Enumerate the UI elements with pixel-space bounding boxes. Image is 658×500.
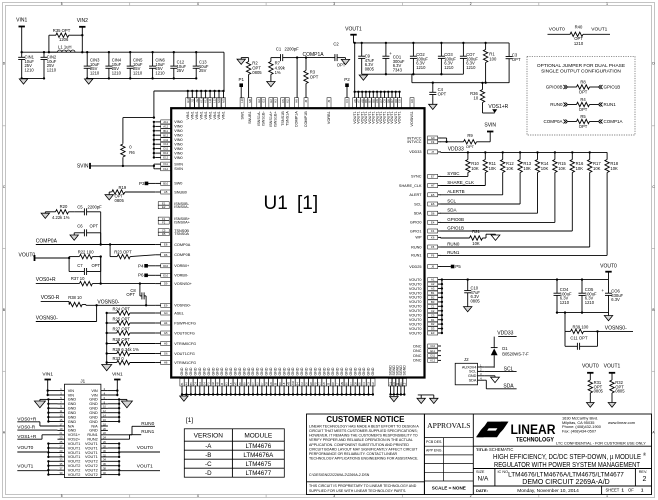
svg-text:C6: C6 [77, 224, 83, 229]
svg-text:K12: K12 [430, 359, 435, 363]
resistor R39 [565, 313, 599, 334]
pin VTRIM1CFG H6 [155, 361, 196, 365]
svg-text:GND: GND [291, 367, 295, 375]
svg-text:GND: GND [202, 367, 206, 375]
ground [70, 235, 78, 240]
svg-text:SVIN: SVIN [484, 123, 496, 129]
svg-text:GND: GND [322, 367, 326, 375]
capacitor C11 [565, 331, 598, 349]
svg-text:10K: 10K [472, 241, 480, 246]
svg-text:B5: B5 [189, 382, 193, 386]
resistor R14 [535, 152, 549, 172]
ground [267, 82, 275, 87]
svg-text:P6: P6 [138, 273, 144, 278]
svg-text:AUX0V4: AUX0V4 [462, 365, 477, 369]
node VIN1 j1 left [42, 371, 57, 396]
svg-text:K9: K9 [278, 382, 282, 386]
resistor R36 [470, 82, 485, 113]
svg-text:GND: GND [234, 367, 238, 375]
svg-text:OPT: OPT [310, 74, 319, 79]
svg-text:VOUT1: VOUT1 [85, 451, 98, 455]
pin RUN1 F6 [411, 253, 441, 257]
svg-text:GPIO0: GPIO0 [410, 221, 422, 225]
svg-text:5: 5 [61, 494, 63, 498]
svg-text:10K: 10K [576, 166, 584, 171]
svg-text:LTM4676A: LTM4676A [243, 452, 274, 459]
svg-text:G6: G6 [211, 381, 215, 385]
svg-text:B8: B8 [371, 99, 375, 103]
pin SHARE_CLK H7 [399, 184, 441, 188]
svg-text:SINGLE OUTPUT CONFIGURATION: SINGLE OUTPUT CONFIGURATION [541, 69, 621, 75]
pin ISNS1B- G3 [261, 98, 265, 126]
svg-text:GND: GND [265, 367, 269, 375]
svg-text:VOUT0: VOUT0 [409, 309, 422, 313]
svg-text:E6: E6 [431, 202, 435, 206]
diode D1 [491, 346, 529, 367]
pin ISNS0A+ F2 [158, 220, 191, 224]
svg-text:GND: GND [313, 367, 317, 375]
svg-text:GND: GND [371, 367, 375, 375]
svg-text:SDA: SDA [503, 384, 514, 390]
capacitor CO1 [382, 43, 405, 74]
svg-text:F2: F2 [162, 220, 166, 224]
svg-text:RUN0: RUN0 [447, 241, 460, 246]
svg-text:SDA: SDA [414, 212, 422, 216]
capacitor C12 [170, 52, 186, 79]
wire sgnd link [418, 395, 434, 398]
svg-text:A3: A3 [431, 287, 435, 291]
logo block [473, 416, 651, 447]
svg-text:SCHEMATIC: SCHEMATIC [489, 447, 513, 452]
svg-text:VDD33: VDD33 [409, 150, 421, 154]
svg-text:J12: J12 [195, 98, 199, 103]
pin TSNS1A K2 [285, 98, 289, 126]
svg-text:SUPPLIED FOR USE WITH LINEAR T: SUPPLIED FOR USE WITH LINEAR TECHNOLOGY … [309, 489, 406, 493]
wire SYBC [441, 171, 468, 177]
svg-text:VOS1+R: VOS1+R [488, 104, 508, 110]
svg-text:ISNS1A+: ISNS1A+ [269, 110, 273, 127]
svg-text:L1 1uH: L1 1uH [58, 45, 72, 50]
svg-text:GND: GND [300, 367, 304, 375]
svg-text:4: 4 [197, 2, 199, 6]
svg-text:GND: GND [367, 367, 371, 375]
svg-text:F4: F4 [431, 229, 435, 233]
wire j1 gnd left [40, 398, 58, 423]
resistor R18 [605, 152, 619, 172]
ground [430, 398, 438, 403]
svg-text:SCL: SCL [414, 202, 421, 206]
svg-text:R24 OPT: R24 OPT [113, 306, 131, 311]
svg-text:COMP0B: COMP0B [174, 253, 191, 257]
testpoint P2 [344, 77, 350, 98]
ground [19, 79, 27, 84]
svg-text:E5: E5 [431, 193, 435, 197]
svg-text:D7: D7 [251, 382, 255, 386]
wire GPIO1B [441, 173, 573, 232]
svg-text:VOUT0: VOUT0 [409, 296, 422, 300]
svg-text:K5: K5 [281, 99, 285, 103]
svg-text:VOS0-R: VOS0-R [41, 295, 60, 301]
svg-text:7343: 7343 [393, 67, 403, 72]
capacitor C4 [429, 83, 446, 105]
svg-text:GND: GND [68, 398, 77, 402]
svg-text:GND: GND [345, 367, 349, 375]
ground [359, 75, 367, 80]
svg-text:RUN1: RUN1 [87, 433, 97, 437]
capacitor C10 [464, 280, 480, 307]
svg-text:E9: E9 [164, 303, 168, 307]
svg-text:P2: P2 [344, 77, 350, 82]
svg-text:K3: K3 [225, 382, 229, 386]
svg-text:TSNS1A: TSNS1A [285, 111, 289, 126]
ground [105, 195, 113, 200]
svg-text:A7: A7 [357, 99, 361, 103]
svg-text:1210: 1210 [560, 300, 570, 305]
wire RUN1 [441, 173, 608, 256]
svg-text:VDD33: VDD33 [497, 330, 513, 336]
svg-text:N/A: N/A [478, 476, 490, 483]
svg-text:J2: J2 [464, 357, 469, 362]
svg-text:C2: C2 [300, 382, 304, 386]
svg-text:APP ENG.: APP ENG. [426, 448, 442, 452]
wire config gnd bus [106, 313, 108, 365]
svg-text:GND: GND [89, 411, 98, 415]
pin VOUT1CFG G6 [155, 352, 195, 356]
resistor R4 [550, 97, 616, 112]
svg-text:GND: GND [468, 374, 477, 378]
svg-text:D5: D5 [162, 232, 166, 236]
svg-text:VIN1: VIN1 [195, 111, 199, 119]
svg-text:VOUT0CFG: VOUT0CFG [174, 331, 195, 335]
wire RUN0 [441, 173, 590, 248]
svg-text:SVIN: SVIN [174, 167, 183, 171]
svg-text:RUN2: RUN2 [87, 438, 97, 442]
svg-text:0805: 0805 [252, 70, 262, 75]
svg-text:GPIO1B: GPIO1B [447, 225, 464, 230]
svg-text:E8: E8 [164, 243, 168, 247]
svg-text:VOUT1: VOUT1 [345, 27, 362, 33]
svg-text:APPROVALS: APPROVALS [427, 421, 470, 430]
pin ALERT E5 [409, 193, 441, 197]
svg-text:H8: H8 [216, 382, 220, 386]
wire vout1 gnd rail [362, 73, 464, 75]
node SVIN [77, 163, 155, 170]
svg-text:C7: C7 [349, 382, 353, 386]
svg-text:B3: B3 [431, 300, 435, 304]
capacitor C2 [332, 42, 346, 68]
pin ISNS1A+ H2 [269, 98, 273, 127]
svg-text:RUN1: RUN1 [447, 250, 460, 255]
node VOUT0 tp [582, 363, 599, 380]
ground [608, 403, 616, 408]
svg-text:1210: 1210 [444, 65, 454, 70]
svg-text:VOUT0: VOUT0 [409, 305, 422, 309]
svg-text:L12: L12 [213, 98, 217, 103]
svg-text:P5: P5 [455, 264, 461, 269]
svg-text:DNC: DNC [413, 359, 421, 363]
svg-text:PERFORMANCE OR RELIABILITY. C: PERFORMANCE OR RELIABILITY. CONTACT LINE… [309, 452, 398, 456]
svg-text:GPIO1B: GPIO1B [604, 85, 621, 90]
svg-text:G3: G3 [367, 381, 371, 385]
svg-text:G8: G8 [265, 381, 269, 385]
svg-text:VOUT2: VOUT2 [85, 473, 98, 477]
svg-text:R37 10: R37 10 [71, 276, 85, 281]
svg-text:2200pF: 2200pF [88, 204, 103, 209]
pin GPIO1 F4 [410, 229, 441, 233]
resistor R33 [106, 356, 156, 365]
svg-text:COMP1A: COMP1A [295, 111, 299, 128]
svg-text:R5: R5 [580, 114, 586, 119]
svg-text:VIN0: VIN0 [174, 134, 182, 138]
customer notice [307, 414, 425, 495]
svg-text:VORB1: VORB1 [327, 111, 331, 124]
resistor R1 [483, 43, 497, 83]
svg-text:VIN: VIN [91, 389, 98, 393]
svg-text:25V: 25V [199, 68, 207, 73]
svg-text:SW1: SW1 [240, 111, 244, 119]
connector J2 [455, 357, 484, 385]
svg-text:U1: U1 [264, 193, 288, 214]
svg-text:B9: B9 [242, 382, 246, 386]
svg-text:GND: GND [220, 367, 224, 375]
svg-text:100: 100 [489, 56, 497, 61]
svg-text:A10: A10 [291, 380, 295, 385]
svg-text:R38 10: R38 10 [68, 295, 82, 300]
pin INTVCC F9 [407, 140, 441, 144]
svg-text:VIN: VIN [68, 389, 75, 393]
svg-text:SHARE_CLK: SHARE_CLK [399, 184, 422, 188]
svg-text:F9: F9 [431, 140, 435, 144]
svg-text:K4: K4 [345, 99, 349, 103]
svg-text:GND: GND [287, 367, 291, 375]
svg-text:4: 4 [197, 494, 199, 498]
svg-text:GND: GND [225, 367, 229, 375]
svg-text:GND: GND [89, 398, 98, 402]
wire VIN1 bus [154, 90, 225, 98]
svg-text:A4: A4 [185, 382, 189, 386]
svg-text:GND: GND [89, 429, 98, 433]
svg-text:R28 OPT: R28 OPT [113, 337, 131, 342]
svg-text:VIN0: VIN0 [174, 147, 182, 151]
wire input rail [22, 51, 224, 53]
svg-text:GPIO0B: GPIO0B [447, 217, 464, 222]
svg-text:A9: A9 [238, 382, 242, 386]
svg-text:ALERT: ALERT [409, 193, 422, 197]
svg-text:VOUT1CFG: VOUT1CFG [174, 352, 195, 356]
capacitor CIN4 [105, 52, 121, 79]
wire SHARE_CLK [441, 173, 486, 186]
svg-text:-C: -C [205, 461, 212, 468]
svg-text:SDA: SDA [447, 208, 456, 213]
resistor R3 [304, 58, 319, 98]
svg-text:GPIO0B: GPIO0B [546, 85, 563, 90]
svg-text:ISNS1B-: ISNS1B- [262, 110, 266, 126]
capacitor C8 [126, 284, 147, 307]
pin VDD25 J6 [409, 265, 441, 269]
svg-text:K11: K11 [199, 98, 203, 103]
svg-text:J5: J5 [327, 99, 331, 102]
node SVIN right [484, 123, 496, 132]
wire VOUT0 bus [441, 278, 443, 334]
svg-text:E8: E8 [309, 382, 313, 386]
svg-text:10K: 10K [506, 166, 514, 171]
wire VIN0 bus [153, 116, 155, 158]
svg-text:0805: 0805 [365, 66, 375, 71]
svg-text:0805: 0805 [615, 389, 625, 394]
pin SW1 L10 [240, 98, 244, 120]
svg-text:VIN: VIN [68, 393, 75, 397]
svg-text:M5: M5 [248, 98, 252, 102]
pin VTRIM0CFG H5 [155, 342, 196, 346]
svg-text:10: 10 [474, 96, 479, 101]
capacitor CIN1 [18, 52, 34, 78]
pin ISNS0A- E2 [158, 205, 190, 209]
svg-text:1210: 1210 [25, 67, 35, 72]
svg-text:CIRCUIT BOARD LAYOUT MAY SIGNI: CIRCUIT BOARD LAYOUT MAY SIGNIFICANTLY A… [309, 447, 418, 451]
svg-text:R9: R9 [467, 133, 473, 138]
pin SVIN F12 [155, 167, 183, 171]
resistor R12 [501, 152, 515, 172]
svg-text:SDA: SDA [469, 379, 477, 383]
svg-text:VOUT2: VOUT2 [85, 464, 98, 468]
svg-text:1210: 1210 [155, 70, 165, 75]
svg-text:GND: GND [68, 415, 77, 419]
svg-text:LTM4675: LTM4675 [245, 461, 271, 468]
capacitor CO5 [579, 280, 598, 313]
pin TSNS1B K5 [281, 98, 285, 126]
svg-text:COMP0A: COMP0A [174, 243, 191, 247]
svg-text:RUN1: RUN1 [411, 254, 421, 258]
svg-text:B0520WS-7-F: B0520WS-7-F [502, 352, 529, 357]
svg-text:K8: K8 [331, 382, 335, 386]
svg-text:GND: GND [189, 367, 193, 375]
svg-text:GND: GND [251, 367, 255, 375]
svg-text:10K: 10K [471, 166, 479, 171]
pin ISNS1A- G2 [257, 98, 261, 126]
svg-text:R29 6.34k 1%: R29 6.34k 1% [113, 347, 140, 352]
pin SNUB0 A5 [155, 190, 187, 194]
svg-text:OPT: OPT [579, 124, 588, 129]
svg-text:GND: GND [296, 367, 300, 375]
svg-text:GND: GND [180, 367, 184, 375]
svg-text:G2: G2 [257, 99, 261, 103]
svg-text:INTVCC: INTVCC [407, 140, 421, 144]
svg-text:VOUT1: VOUT1 [137, 464, 153, 470]
svg-text:ISNS1B+: ISNS1B+ [274, 110, 278, 127]
svg-text:R19: R19 [119, 185, 127, 190]
wire gnd rail CIN1-CIN2 [21, 77, 46, 79]
svg-text:VIN0: VIN0 [174, 138, 182, 142]
ground [464, 307, 472, 312]
svg-text:B: B [3, 308, 5, 312]
svg-text:D1: D1 [431, 318, 435, 322]
svg-text:OPT: OPT [466, 144, 475, 149]
wire vout0 gnd rail [556, 311, 609, 313]
icno section [473, 469, 651, 487]
wire INTVCC join [441, 138, 464, 143]
svg-text:M3: M3 [287, 381, 291, 385]
resistor R23 [110, 245, 155, 259]
svg-text:0805: 0805 [471, 298, 481, 303]
svg-text:R35 OPT: R35 OPT [53, 28, 71, 33]
svg-text:VOUT1: VOUT1 [85, 442, 98, 446]
svg-text:B2: B2 [431, 296, 435, 300]
svg-text:M11: M11 [217, 97, 221, 103]
resistor R32 [610, 380, 625, 403]
svg-text:10K: 10K [558, 166, 566, 171]
svg-text:VOUT1: VOUT1 [68, 446, 81, 450]
svg-text:J7: J7 [431, 150, 434, 154]
node VOUT0 right [600, 263, 617, 279]
resistor R35 [49, 28, 84, 52]
svg-text:VOUT1: VOUT1 [604, 363, 621, 369]
svg-text:D1: D1 [502, 346, 508, 351]
svg-text:N/A: N/A [91, 424, 98, 428]
svg-text:C10: C10 [430, 344, 435, 348]
svg-text:H5: H5 [322, 382, 326, 386]
svg-text:VOUT1: VOUT1 [398, 111, 402, 124]
svg-text:COMP1B: COMP1B [304, 111, 308, 128]
wire GPIO0B [441, 173, 555, 223]
svg-text:REV.: REV. [639, 470, 648, 474]
svg-text:GND: GND [260, 367, 264, 375]
pin VOUT0 group [409, 278, 441, 336]
svg-text:A5: A5 [164, 190, 168, 194]
svg-text:ASEL: ASEL [174, 311, 184, 315]
pin ISNS1B+ H3 [273, 98, 277, 127]
svg-text:DEMO CIRCUIT 2269A-A/D: DEMO CIRCUIT 2269A-A/D [522, 479, 609, 486]
svg-text:VIN1: VIN1 [191, 111, 195, 119]
svg-text:GND: GND [211, 367, 215, 375]
capacitor CO7 [460, 43, 479, 74]
svg-text:ALERTB: ALERTB [447, 189, 464, 194]
pin SDA D6 [414, 211, 441, 215]
svg-text:SCL: SCL [469, 370, 476, 374]
svg-text:D11: D11 [163, 147, 168, 151]
svg-text:2: 2 [470, 2, 472, 6]
svg-text:R25 OPT: R25 OPT [113, 316, 131, 321]
svg-text:10K: 10K [610, 166, 618, 171]
svg-text:VOUT0: VOUT0 [19, 253, 36, 259]
node VOS0+R [36, 277, 80, 283]
resistor R28 [106, 337, 156, 346]
title section [473, 447, 651, 469]
svg-text:B6: B6 [344, 382, 348, 386]
resistor R25 [106, 316, 156, 325]
resistor R2 [241, 58, 262, 98]
capacitor CIN2 [41, 52, 57, 78]
capacitor C3 [506, 43, 521, 83]
svg-text:E8: E8 [398, 99, 402, 103]
svg-text:GND: GND [336, 367, 340, 375]
svg-text:GND: GND [185, 367, 189, 375]
svg-text:TSNS1B: TSNS1B [281, 111, 285, 126]
resistor R8 [546, 80, 621, 95]
svg-text:GND: GND [349, 367, 353, 375]
svg-text:R4: R4 [580, 97, 586, 102]
node VOUT1 top [345, 27, 362, 45]
node VOSNS0- low [36, 305, 97, 321]
svg-text:F12: F12 [163, 167, 168, 171]
svg-text:VOUT0: VOUT0 [409, 322, 422, 326]
svg-text:HIGH EFFICIENCY, DC/DC STEP-DO: HIGH EFFICIENCY, DC/DC STEP-DOWN, µ MODU… [493, 454, 641, 461]
svg-text:VIN1: VIN1 [217, 111, 221, 119]
svg-text:FSWPHCFG: FSWPHCFG [174, 321, 196, 325]
svg-text:OPTIONAL JUMPER FOR DUAL PHASE: OPTIONAL JUMPER FOR DUAL PHASE [537, 63, 625, 69]
svg-text:G7: G7 [318, 381, 322, 385]
node VIN1 j1 right [108, 371, 123, 396]
pin VOSNS0- E9 [155, 303, 191, 307]
